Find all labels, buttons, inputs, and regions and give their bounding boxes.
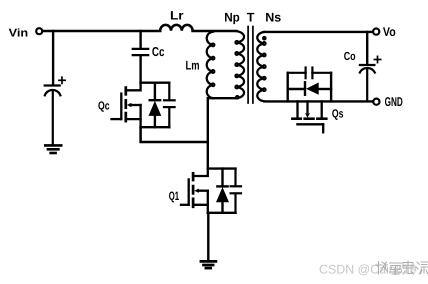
transistor Qs MOSFET [292, 101, 326, 132]
wire Q1 source to ground [207, 213, 209, 260]
transistor Qc MOSFET [112, 83, 141, 128]
wire Qs left bus [287, 73, 289, 102]
gate stub [112, 118, 122, 120]
wire Q1 top bus [208, 167, 236, 169]
node GND terminal [373, 99, 379, 105]
transformer T primary winding Np [235, 31, 244, 98]
wire Cc branch [139, 31, 141, 48]
wire Qs right bus [330, 73, 332, 102]
capacitor parasitic cap of Qc [164, 83, 175, 128]
svg-text:GND: GND [385, 94, 403, 109]
ground main [201, 261, 216, 268]
wire Q1 bottom bus [208, 212, 236, 214]
capacitor Cin polarized [45, 86, 61, 145]
svg-text:Ns: Ns [265, 11, 281, 25]
wire primary bottom [208, 98, 213, 142]
svg-text:Lm: Lm [186, 58, 200, 72]
wire secondary bottom rail [264, 100, 372, 102]
transformer secondary winding Ns [257, 32, 265, 101]
svg-text:Lr: Lr [170, 9, 184, 23]
svg-text:Co: Co [344, 50, 356, 63]
node Vin terminal [36, 28, 42, 34]
node primary dot [235, 95, 240, 100]
plus sign Co [374, 56, 380, 62]
body lead with arrow [130, 104, 141, 106]
inductor Lr [160, 25, 192, 31]
wire secondary top rail [264, 31, 372, 33]
wire input cap branch [52, 31, 54, 85]
capacitor Co polarized [360, 65, 375, 101]
svg-text:Vin: Vin [9, 27, 29, 39]
gate bar [120, 94, 122, 120]
capacitor parasitic cap of Q1 [231, 169, 241, 213]
gate stub [181, 204, 189, 206]
gate bar [188, 179, 190, 204]
capacitor Cc [133, 49, 149, 55]
plus sign input cap [59, 77, 65, 83]
source lead [126, 119, 141, 127]
drain lead [126, 83, 141, 91]
svg-text:CSDN @Cain619: CSDN @Cain619 [319, 263, 417, 277]
node secondary dot [262, 36, 267, 41]
wire clamp bottom bus [141, 126, 170, 128]
svg-text:Np: Np [224, 10, 240, 24]
svg-text:Qc: Qc [98, 99, 110, 112]
diode body diode of Qs [288, 82, 331, 95]
svg-text:Qs: Qs [332, 107, 344, 121]
svg-text:Q1: Q1 [169, 189, 180, 203]
transistor Q1 MOSFET [181, 169, 208, 213]
capacitor parasitic cap of Qs [288, 68, 331, 79]
wire top rail Lr to transformer [193, 30, 237, 32]
wire Co branch [366, 32, 368, 64]
wire Cc to clamp cell [139, 56, 141, 83]
body lead with arrow [198, 190, 208, 192]
wire clamp cell to switch node [141, 127, 208, 142]
ground input [45, 145, 61, 153]
channel segments [124, 88, 127, 122]
wire switch node vertical [207, 142, 209, 169]
transformer core [247, 27, 249, 104]
diode body diode of Qc [149, 83, 162, 128]
svg-text:Vo: Vo [383, 25, 396, 39]
svg-text:Cc: Cc [152, 44, 165, 59]
wire top rail Vin to Lr [43, 30, 160, 32]
wire clamp top bus [141, 81, 170, 83]
drain lead [193, 169, 208, 176]
inductor Lm magnetizing [207, 32, 215, 99]
node Vo terminal [373, 29, 379, 35]
diode body diode of Q1 [216, 169, 229, 213]
source lead [193, 205, 208, 213]
watermark hanzi overlay [376, 261, 428, 275]
svg-text:T: T [247, 10, 255, 24]
channel segments [192, 173, 195, 207]
